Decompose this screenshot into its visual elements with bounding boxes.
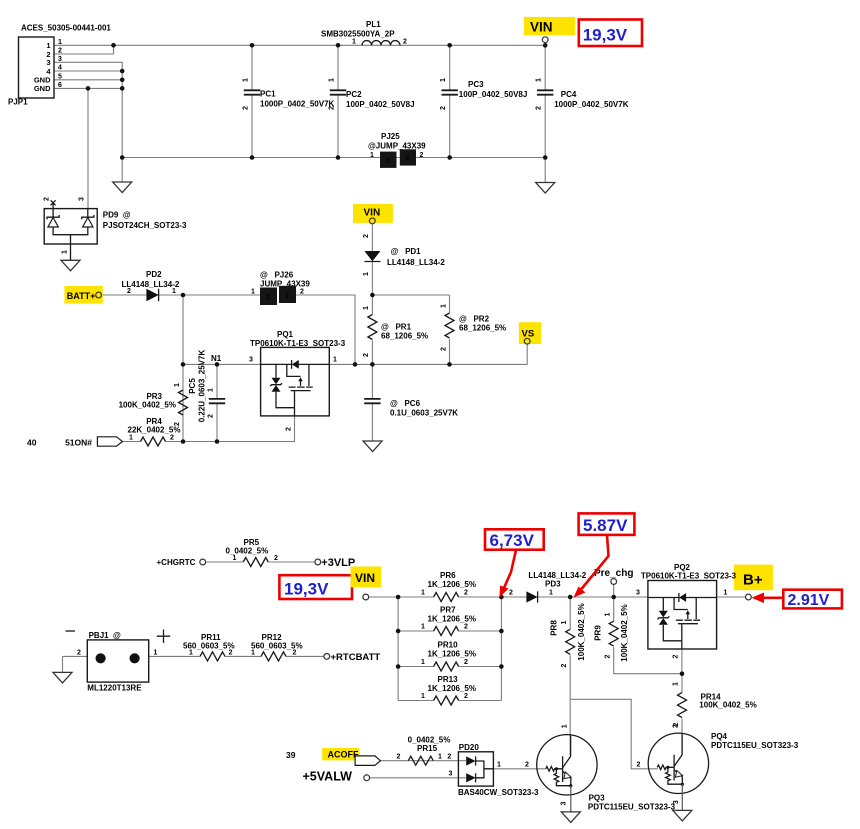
svg-text:PD3: PD3	[545, 580, 561, 589]
svg-text:PQ2: PQ2	[674, 563, 691, 572]
svg-text:PR13: PR13	[438, 675, 459, 684]
svg-text:+RTCBATT: +RTCBATT	[331, 652, 381, 663]
svg-text:4: 4	[58, 65, 62, 72]
svg-text:TP0610K-T1-E3 SOT23-3: TP0610K-T1-E3 SOT23-3	[250, 339, 346, 348]
svg-text:5.87V: 5.87V	[583, 516, 628, 535]
svg-text:3: 3	[449, 771, 453, 778]
svg-text:@ PR1: @ PR1	[381, 323, 412, 332]
svg-text:BATT+: BATT+	[67, 291, 96, 301]
svg-text:1: 1	[154, 650, 158, 657]
svg-text:PC2: PC2	[346, 90, 362, 99]
svg-text:PD20: PD20	[459, 743, 480, 752]
svg-text:2: 2	[525, 762, 529, 769]
svg-text:6: 6	[58, 82, 62, 89]
svg-text:2: 2	[363, 353, 370, 357]
svg-text:PJP1: PJP1	[8, 98, 28, 107]
svg-text:1K_1206_5%: 1K_1206_5%	[428, 684, 476, 693]
svg-text:1K_1206_5%: 1K_1206_5%	[428, 580, 476, 589]
svg-text:@ PD1: @ PD1	[391, 247, 422, 256]
svg-text:PC3: PC3	[468, 80, 484, 89]
svg-text:68_1206_5%: 68_1206_5%	[459, 324, 506, 333]
svg-text:PL1: PL1	[366, 20, 381, 29]
svg-text:2: 2	[286, 427, 293, 431]
svg-text:1: 1	[549, 590, 553, 597]
svg-text:2: 2	[127, 288, 131, 295]
svg-text:1: 1	[605, 612, 612, 616]
svg-text:2: 2	[243, 106, 250, 110]
svg-text:2: 2	[397, 754, 401, 761]
svg-text:2: 2	[441, 347, 448, 351]
svg-text:3: 3	[561, 802, 568, 806]
svg-text:2: 2	[440, 106, 447, 110]
svg-text:JUMP_43X39: JUMP_43X39	[260, 280, 310, 289]
svg-text:1: 1	[561, 620, 568, 624]
svg-text:100P_0402_50V8J: 100P_0402_50V8J	[459, 90, 528, 99]
svg-text:1K_1206_5%: 1K_1206_5%	[428, 615, 476, 624]
svg-text:100K_0402_5%: 100K_0402_5%	[699, 701, 756, 710]
svg-text:2: 2	[447, 754, 451, 761]
svg-text:ACES_50305-00441-001: ACES_50305-00441-001	[21, 24, 111, 33]
svg-text:VIN: VIN	[355, 571, 375, 585]
svg-text:100K_0402_5%: 100K_0402_5%	[620, 604, 629, 661]
svg-text:1: 1	[352, 39, 356, 46]
svg-text:39: 39	[286, 750, 296, 760]
svg-text:560_0603_5%: 560_0603_5%	[251, 642, 303, 651]
svg-text:VIN: VIN	[364, 208, 381, 219]
svg-text:100P_0402_50V8J: 100P_0402_50V8J	[346, 100, 415, 109]
svg-text:2: 2	[403, 39, 407, 46]
svg-text:2: 2	[363, 234, 370, 238]
svg-text:1: 1	[440, 78, 447, 82]
svg-text:2: 2	[405, 154, 409, 163]
svg-text:2.91V: 2.91V	[788, 592, 830, 609]
svg-text:1: 1	[174, 383, 181, 387]
svg-text:ACOFF: ACOFF	[328, 750, 359, 760]
svg-text:1: 1	[243, 78, 250, 82]
svg-text:PD9 @: PD9 @	[103, 211, 131, 220]
svg-text:2: 2	[229, 650, 233, 657]
svg-text:PR8: PR8	[550, 620, 559, 636]
svg-text:100K_0402_5%: 100K_0402_5%	[119, 401, 176, 410]
svg-text:N1: N1	[211, 354, 222, 363]
svg-text:+5VALW: +5VALW	[303, 770, 353, 784]
svg-text:PR9: PR9	[594, 625, 603, 641]
svg-text:PR7: PR7	[440, 606, 456, 615]
svg-text:1: 1	[172, 288, 176, 295]
svg-text:PJSOT24CH_SOT23-3: PJSOT24CH_SOT23-3	[103, 221, 187, 230]
svg-text:PJ25: PJ25	[381, 132, 400, 141]
svg-text:VIN: VIN	[530, 20, 553, 35]
svg-text:1: 1	[421, 693, 425, 700]
svg-text:2: 2	[561, 663, 568, 667]
svg-text:1000P_0402_50V7K: 1000P_0402_50V7K	[260, 100, 335, 109]
svg-text:PC1: PC1	[260, 90, 276, 99]
svg-text:6,73V: 6,73V	[490, 531, 535, 550]
svg-text:1: 1	[421, 659, 425, 666]
svg-text:51ON#: 51ON#	[65, 438, 92, 448]
svg-text:1: 1	[441, 304, 448, 308]
svg-text:2: 2	[300, 289, 304, 296]
svg-text:PR6: PR6	[440, 571, 456, 580]
svg-text:+3VLP: +3VLP	[321, 557, 355, 569]
svg-text:2: 2	[605, 654, 612, 658]
svg-text:5: 5	[58, 73, 62, 80]
svg-text:PC4: PC4	[561, 90, 577, 99]
svg-text:2: 2	[293, 650, 297, 657]
svg-text:1: 1	[562, 724, 569, 728]
svg-text:2: 2	[170, 435, 174, 442]
svg-text:2: 2	[464, 659, 468, 666]
svg-text:ML1220T13RE: ML1220T13RE	[87, 684, 142, 693]
svg-text:1: 1	[363, 272, 370, 276]
svg-text:1: 1	[251, 289, 255, 296]
svg-text:3: 3	[636, 590, 640, 597]
svg-text:BAS40CW_SOT323-3: BAS40CW_SOT323-3	[458, 788, 539, 797]
svg-text:0.22U_0603_25V7K: 0.22U_0603_25V7K	[198, 350, 207, 423]
svg-text:@ PC6: @ PC6	[390, 399, 421, 408]
svg-text:1: 1	[497, 762, 501, 769]
svg-text:1: 1	[46, 41, 50, 50]
svg-text:@ PR2: @ PR2	[459, 315, 490, 324]
svg-text:2: 2	[464, 590, 468, 597]
svg-text:GND: GND	[34, 84, 51, 93]
svg-text:100K_0402_5%: 100K_0402_5%	[577, 603, 586, 660]
svg-text:1: 1	[363, 306, 370, 310]
svg-text:@ PJ26: @ PJ26	[260, 271, 294, 280]
svg-text:1: 1	[421, 624, 425, 631]
svg-text:1: 1	[266, 293, 270, 302]
svg-text:PR10: PR10	[438, 641, 459, 650]
svg-text:2: 2	[208, 414, 215, 418]
svg-text:1: 1	[333, 357, 337, 364]
svg-text:PQ3: PQ3	[589, 794, 606, 803]
svg-text:1: 1	[251, 650, 255, 657]
svg-text:2: 2	[509, 590, 513, 597]
svg-text:1: 1	[208, 388, 215, 392]
svg-text:1: 1	[58, 39, 62, 46]
svg-text:PR15: PR15	[417, 744, 438, 753]
svg-text:2: 2	[329, 106, 336, 110]
svg-text:3: 3	[46, 58, 50, 67]
svg-text:1: 1	[724, 590, 728, 597]
svg-text:68_1206_5%: 68_1206_5%	[381, 332, 428, 341]
svg-text:Pre_chg: Pre_chg	[594, 568, 633, 579]
svg-text:PD2: PD2	[146, 270, 162, 279]
svg-text:2: 2	[536, 106, 543, 110]
svg-text:2: 2	[77, 650, 81, 657]
svg-text:PBJ1 @: PBJ1 @	[89, 631, 121, 640]
svg-text:22K_0402_5%: 22K_0402_5%	[128, 426, 181, 435]
svg-text:B+: B+	[743, 572, 763, 589]
svg-text:2: 2	[285, 291, 289, 300]
svg-text:2: 2	[274, 555, 278, 562]
svg-text:2: 2	[673, 654, 680, 658]
svg-text:560_0603_5%: 560_0603_5%	[183, 642, 235, 651]
svg-text:1: 1	[673, 682, 680, 686]
svg-text:1: 1	[536, 78, 543, 82]
svg-text:PQ1: PQ1	[277, 330, 294, 339]
svg-text:2: 2	[637, 762, 641, 769]
svg-text:PDTC115EU_SOT323-3: PDTC115EU_SOT323-3	[588, 803, 676, 812]
svg-text:0.1U_0603_25V7K: 0.1U_0603_25V7K	[390, 409, 458, 418]
svg-text:2: 2	[44, 197, 51, 201]
svg-text:1000P_0402_50V7K: 1000P_0402_50V7K	[554, 100, 629, 109]
svg-text:1K_1206_5%: 1K_1206_5%	[428, 650, 476, 659]
svg-text:2: 2	[420, 152, 424, 159]
svg-text:PQ4: PQ4	[711, 732, 728, 741]
svg-text:3: 3	[249, 357, 253, 364]
svg-text:19,3V: 19,3V	[583, 26, 628, 45]
svg-text:LL4148_LL34-2: LL4148_LL34-2	[387, 258, 445, 267]
svg-text:2: 2	[464, 624, 468, 631]
svg-text:TP0610K-T1-E3 SOT23-3: TP0610K-T1-E3 SOT23-3	[641, 572, 737, 581]
svg-text:SMB3025500YA_2P: SMB3025500YA_2P	[321, 30, 395, 39]
svg-text:1: 1	[421, 590, 425, 597]
svg-text:1: 1	[438, 754, 442, 761]
svg-text:1: 1	[233, 555, 237, 562]
svg-text:1: 1	[129, 435, 133, 442]
svg-text:3: 3	[58, 56, 62, 63]
svg-text:1: 1	[329, 78, 336, 82]
svg-text:PC5: PC5	[188, 378, 197, 394]
svg-text:2: 2	[464, 693, 468, 700]
svg-text:19,3V: 19,3V	[284, 580, 329, 599]
svg-text:@JUMP_43X39: @JUMP_43X39	[368, 142, 426, 151]
svg-text:40: 40	[27, 438, 37, 448]
svg-text:1: 1	[386, 156, 390, 165]
svg-text:3: 3	[79, 197, 86, 201]
svg-text:1: 1	[62, 250, 69, 254]
svg-text:1: 1	[189, 650, 193, 657]
svg-text:PDTC115EU_SOT323-3: PDTC115EU_SOT323-3	[711, 741, 799, 750]
svg-text:2: 2	[673, 722, 680, 726]
svg-text:+CHGRTC: +CHGRTC	[157, 558, 196, 567]
svg-text:1: 1	[370, 152, 374, 159]
svg-text:2: 2	[58, 48, 62, 55]
